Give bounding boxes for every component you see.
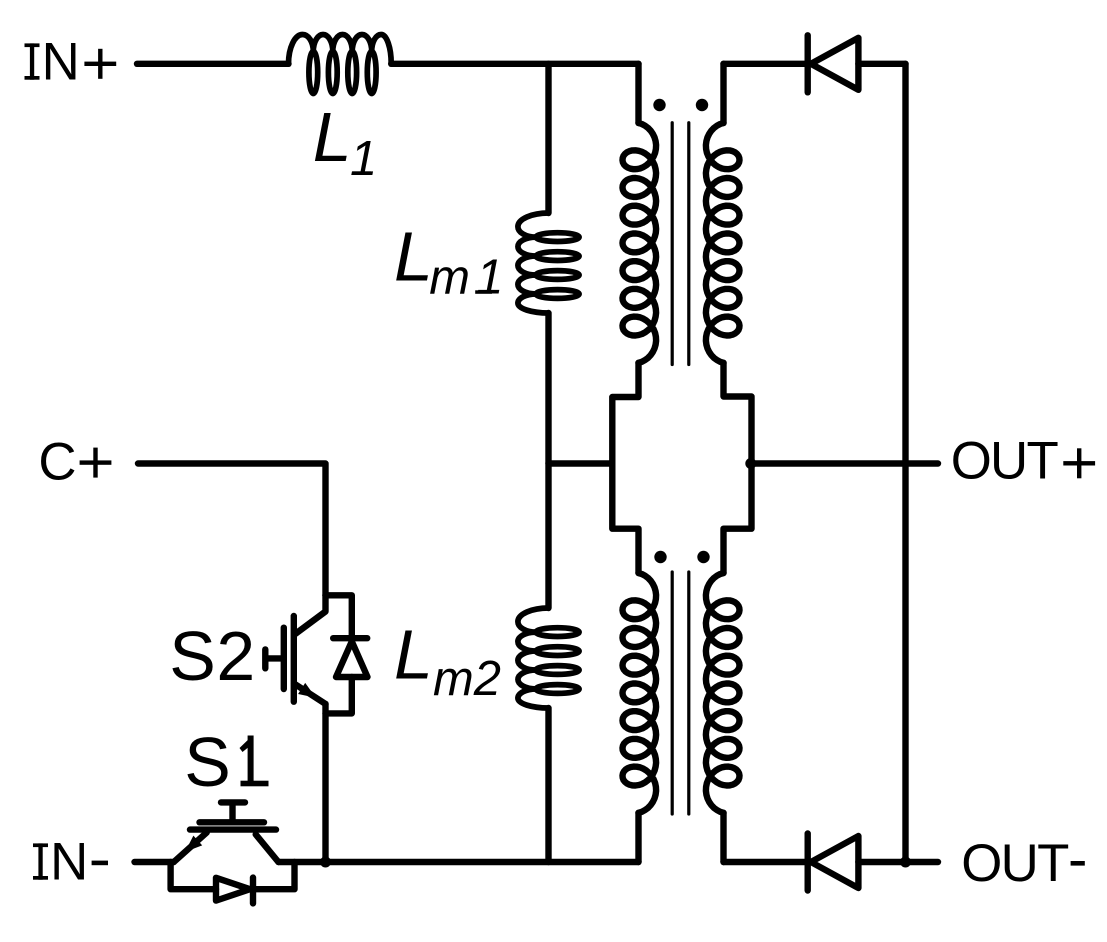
transistor S2 (IGBT) collector xyxy=(296,595,326,633)
svg-text:1: 1 xyxy=(476,250,503,304)
T2 core xyxy=(672,572,689,814)
S2 emitter xyxy=(294,684,325,704)
T2 polarity dot left xyxy=(654,551,666,563)
inductor L1 xyxy=(289,34,392,93)
svg-text:L: L xyxy=(313,98,352,176)
diode D1 (top) xyxy=(805,35,811,92)
S1 collector xyxy=(256,834,279,862)
wire Lm1 to center tap xyxy=(545,313,551,608)
wire OUT+ xyxy=(752,460,939,466)
T1 core xyxy=(672,123,689,365)
T2 polarity dot right xyxy=(697,551,709,563)
diode of S2 (antiparallel) xyxy=(326,595,352,638)
diode of S1 (antiparallel loop) xyxy=(171,862,216,889)
S1 body bar xyxy=(190,826,276,832)
wire S2 emitter to bottom rail xyxy=(322,704,328,862)
label IN- xyxy=(33,843,48,879)
S2 gate bar xyxy=(281,628,287,689)
svg-text:L: L xyxy=(394,616,433,694)
wire Lm2 to bottom rail xyxy=(545,708,551,862)
wire Lm branch from top rail xyxy=(545,64,551,213)
node OUT- junction xyxy=(900,857,911,868)
inductor Lm1 xyxy=(518,213,579,313)
wire IN+ lead xyxy=(137,61,289,67)
wire D2 to OUT- xyxy=(858,859,938,865)
transformer T2 primary (left winding) xyxy=(623,573,657,813)
svg-text:L: L xyxy=(394,217,433,295)
S2 body bar xyxy=(291,616,297,702)
S1 emitter xyxy=(174,833,207,863)
S1 gate bar xyxy=(200,819,265,825)
transistor S1 (IGBT) gate xyxy=(221,802,245,822)
wire D1 to right rail xyxy=(858,61,905,67)
wire L1 to transformer T1 xyxy=(391,61,638,67)
svg-text:m2: m2 xyxy=(433,652,501,706)
node S2 emitter / IN- junction xyxy=(320,857,331,868)
wire C+ xyxy=(138,464,326,596)
wire center tap xyxy=(549,460,613,466)
svg-text:OUT: OUT xyxy=(961,834,1069,893)
svg-text:OUT: OUT xyxy=(951,432,1059,491)
svg-text:N: N xyxy=(50,833,88,892)
svg-text:C: C xyxy=(38,433,76,492)
svg-text:m: m xyxy=(429,251,470,305)
transformer T1 primary (left winding) xyxy=(635,64,641,123)
label IN+ xyxy=(25,43,40,79)
svg-text:S2: S2 xyxy=(169,617,255,695)
wire IN- rail to transformer xyxy=(278,859,638,865)
transformer T1 secondary (right winding) xyxy=(720,64,726,123)
inductor Lm2 xyxy=(518,608,579,708)
svg-text:S: S xyxy=(184,723,231,801)
diode D2 (bottom) xyxy=(805,834,811,891)
wire IN- lead xyxy=(135,859,174,865)
T1 polarity dot left xyxy=(653,99,665,111)
S2 gate lead xyxy=(265,649,281,668)
wire T2 secondary to diode D2 xyxy=(724,859,805,865)
T1 polarity dot right xyxy=(696,99,708,111)
svg-text:1: 1 xyxy=(350,132,377,186)
svg-text:N: N xyxy=(42,33,80,92)
wire T1 secondary to diode D1 xyxy=(724,61,805,67)
transformer T2 secondary (right winding) xyxy=(706,573,740,813)
node center tap / OUT+ junction xyxy=(745,458,756,469)
wire right rail xyxy=(902,64,908,862)
